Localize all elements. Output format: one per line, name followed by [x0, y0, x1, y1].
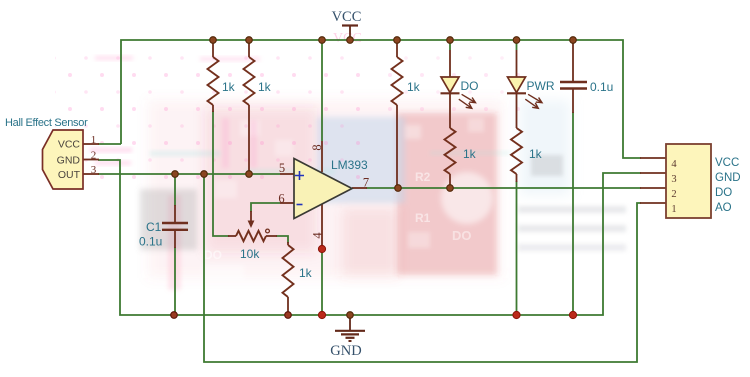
svg-text:1k: 1k — [407, 80, 421, 94]
svg-text:C1: C1 — [146, 220, 162, 234]
svg-text:3: 3 — [91, 164, 97, 176]
svg-text:PWR: PWR — [527, 79, 555, 93]
svg-text:6: 6 — [278, 192, 284, 206]
svg-text:VCC: VCC — [332, 9, 362, 25]
svg-text:OUT: OUT — [58, 169, 81, 181]
svg-text:4: 4 — [671, 159, 677, 170]
svg-text:2: 2 — [671, 189, 676, 200]
svg-text:DO: DO — [204, 248, 222, 262]
svg-text:1k: 1k — [222, 80, 236, 94]
svg-text:1k: 1k — [463, 147, 477, 161]
svg-text:GND: GND — [715, 172, 741, 184]
svg-text:8: 8 — [310, 144, 324, 150]
svg-text:R1: R1 — [415, 211, 431, 225]
svg-text:1k: 1k — [258, 80, 272, 94]
svg-text:R2: R2 — [415, 170, 431, 184]
svg-text:DO: DO — [461, 79, 479, 93]
svg-text:0.1u: 0.1u — [590, 80, 613, 94]
svg-text:GND: GND — [57, 155, 81, 167]
svg-text:VCC: VCC — [715, 157, 739, 169]
svg-text:0.1u: 0.1u — [139, 235, 162, 249]
svg-text:AO: AO — [715, 202, 732, 214]
svg-text:1k: 1k — [529, 147, 543, 161]
svg-text:1: 1 — [671, 204, 676, 215]
svg-text:DO: DO — [452, 228, 472, 243]
svg-text:VCC: VCC — [58, 139, 81, 151]
svg-text:GND: GND — [330, 343, 361, 359]
svg-text:7: 7 — [363, 176, 369, 190]
svg-text:LM393: LM393 — [331, 158, 368, 172]
svg-text:1: 1 — [91, 134, 97, 146]
svg-text:3: 3 — [671, 174, 676, 185]
svg-text:2: 2 — [91, 150, 97, 162]
svg-text:4: 4 — [311, 232, 325, 239]
svg-text:10k: 10k — [240, 247, 260, 261]
svg-text:1k: 1k — [299, 266, 313, 280]
svg-text:DO: DO — [715, 187, 732, 199]
svg-text:Hall Effect Sensor: Hall Effect Sensor — [5, 117, 88, 129]
svg-text:5: 5 — [279, 161, 285, 175]
